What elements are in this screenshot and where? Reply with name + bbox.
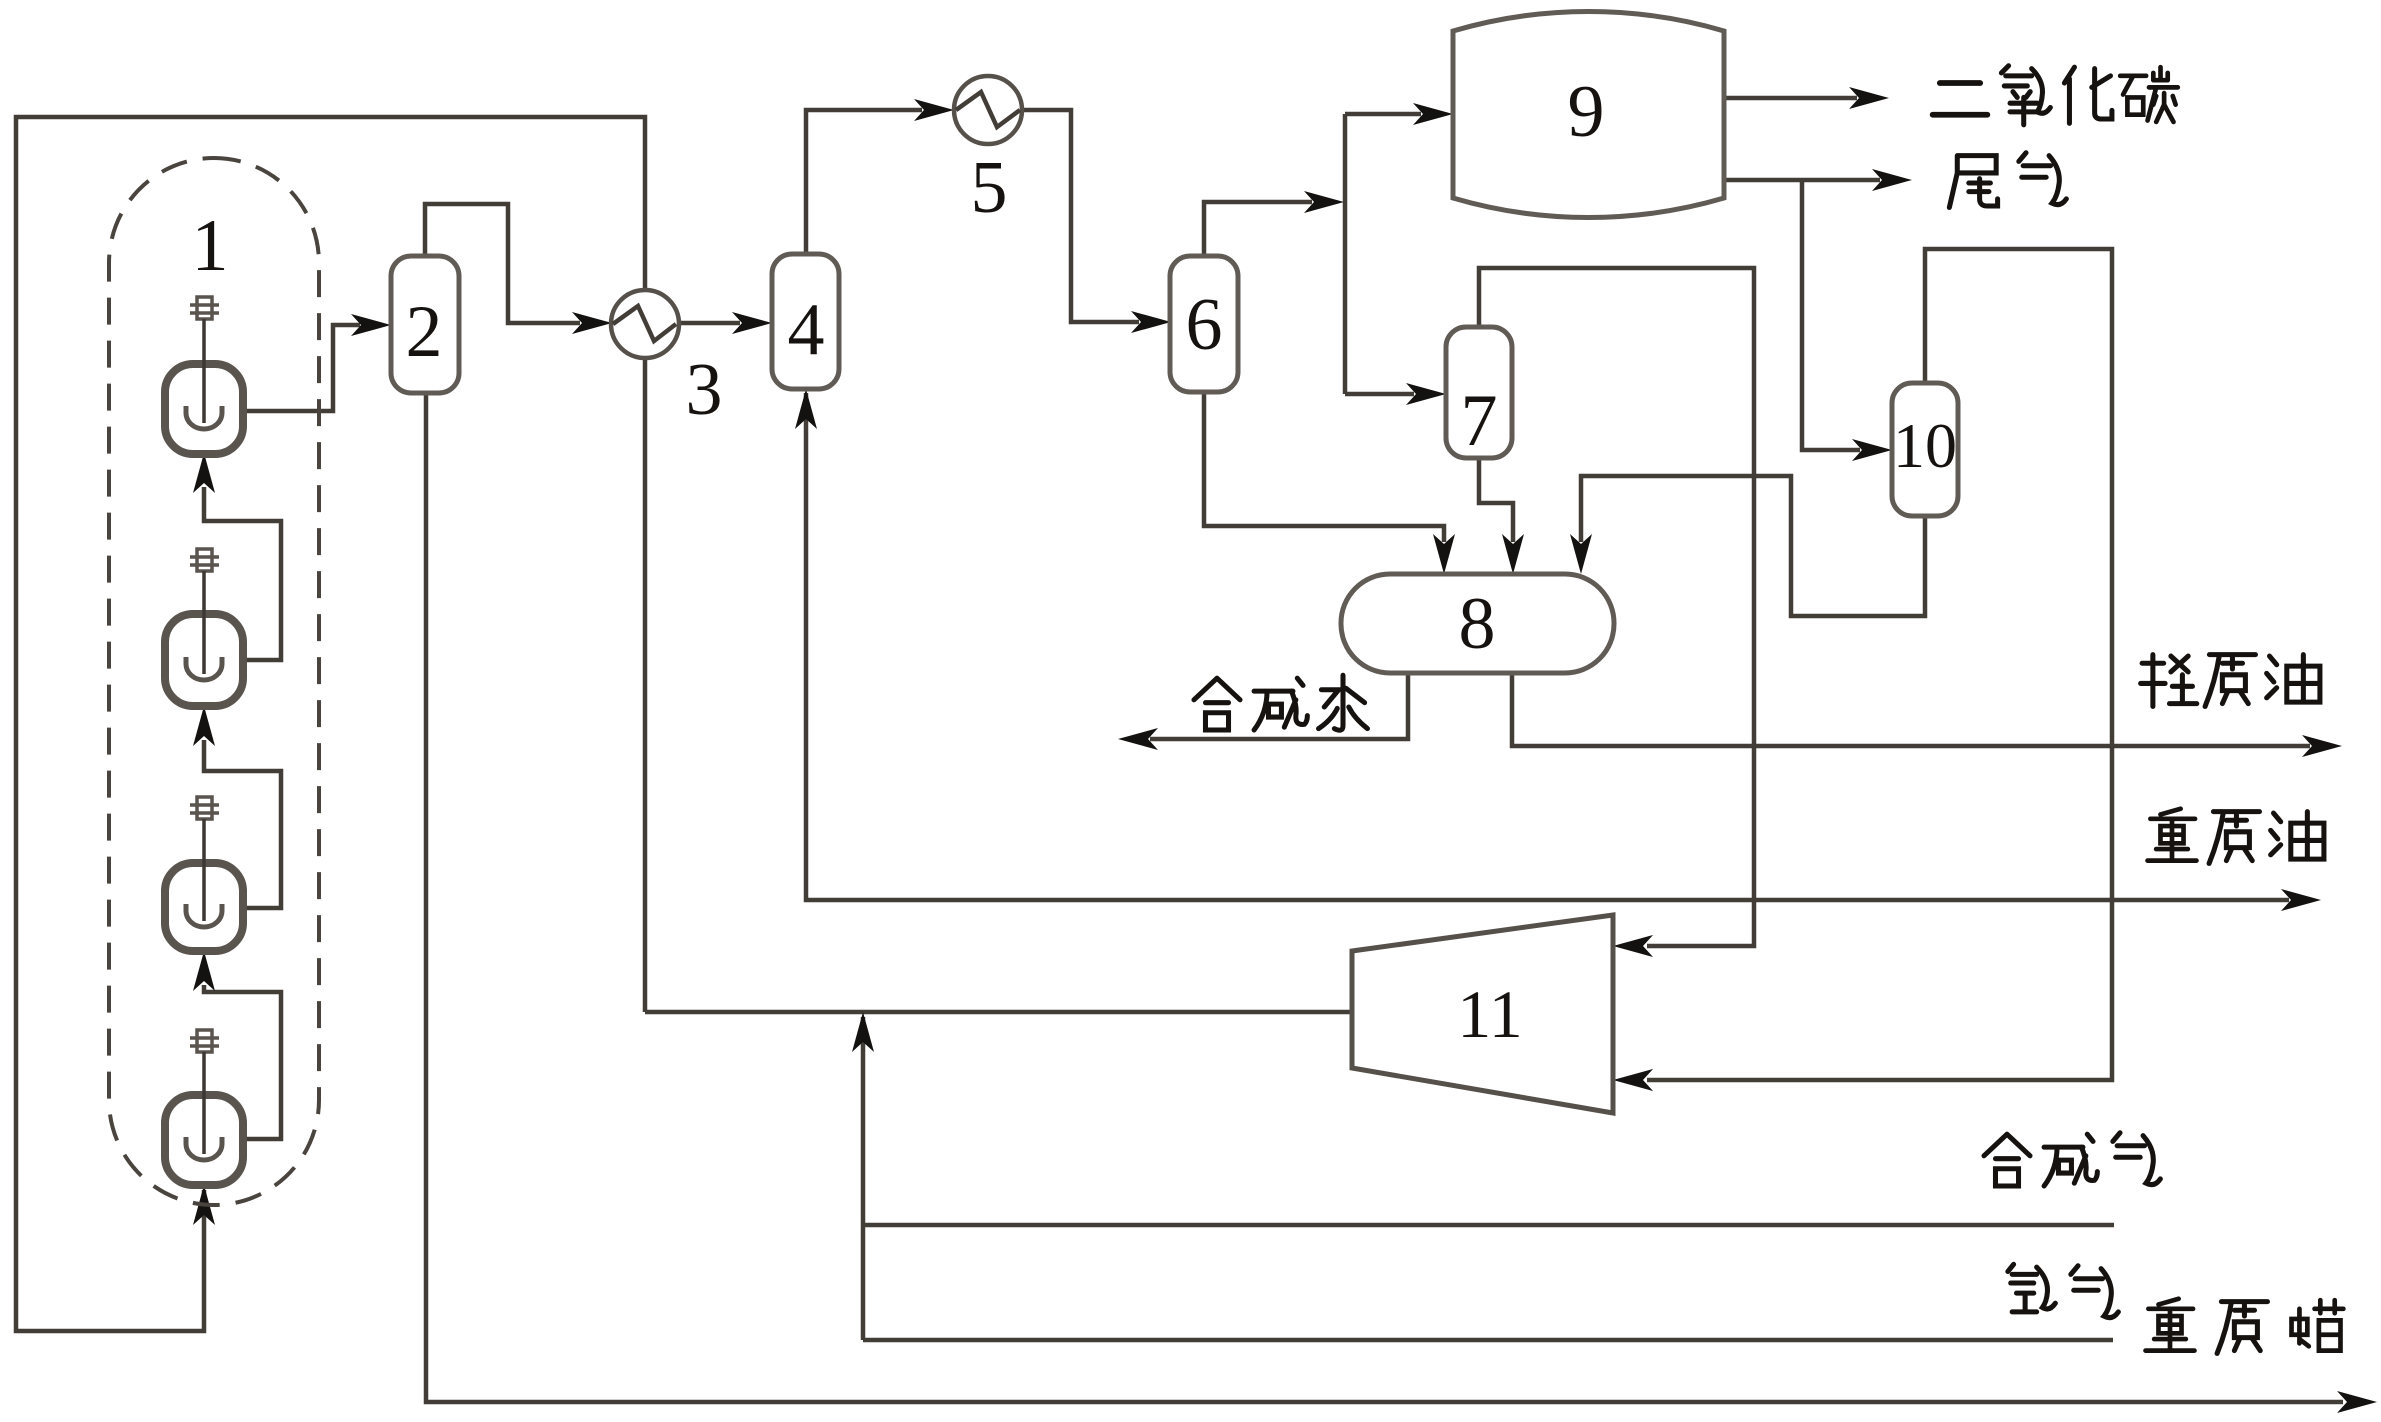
svg-text:4: 4 [788,289,825,371]
svg-text:10: 10 [1893,410,1957,481]
svg-text:5: 5 [971,147,1008,229]
svg-text:2: 2 [406,291,443,373]
svg-text:11: 11 [1457,976,1522,1052]
svg-text:8: 8 [1459,583,1496,665]
svg-text:3: 3 [686,349,723,431]
svg-text:9: 9 [1568,71,1605,153]
svg-text:7: 7 [1461,380,1498,462]
svg-text:1: 1 [192,205,229,287]
svg-text:6: 6 [1186,284,1223,366]
